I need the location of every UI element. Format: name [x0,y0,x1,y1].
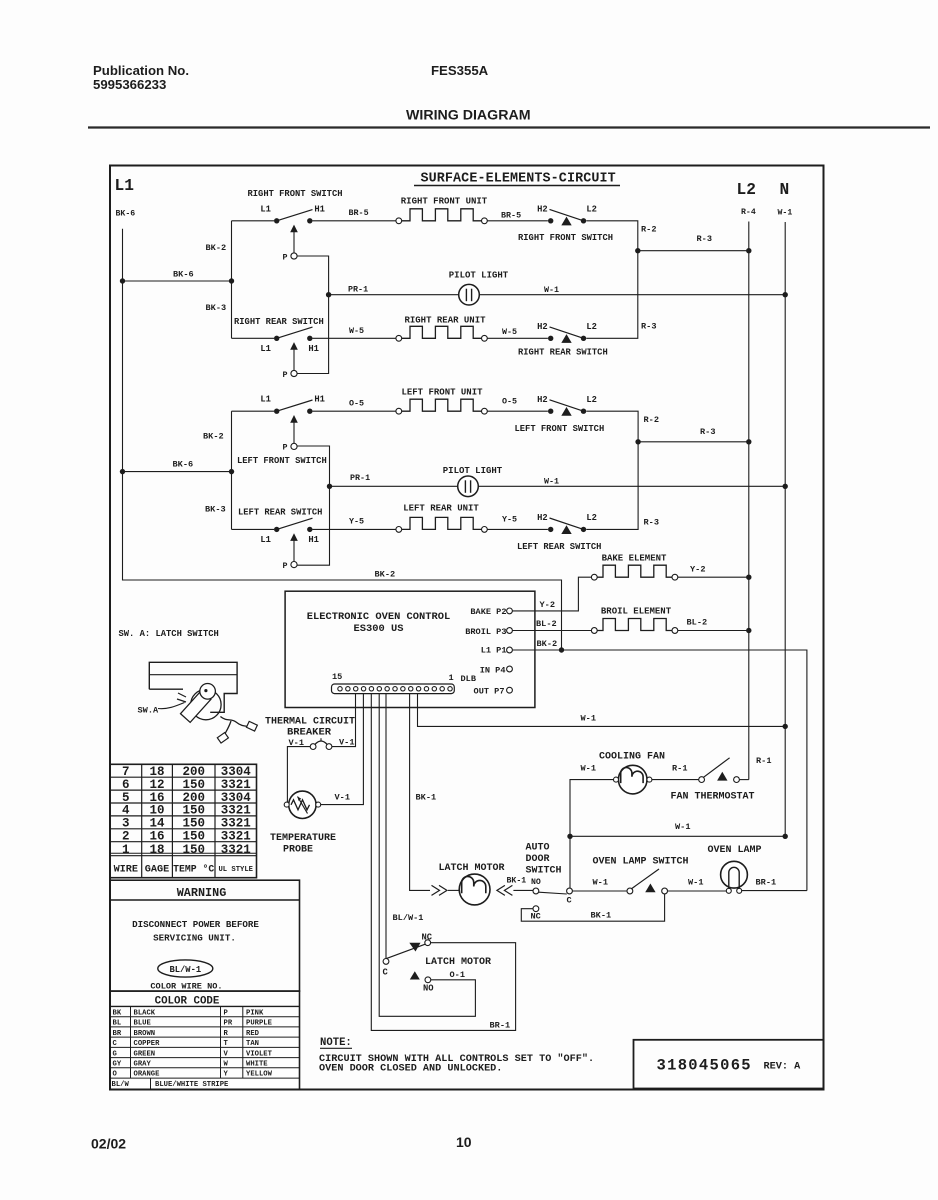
svg-text:BK-2: BK-2 [537,639,558,649]
wire P rise left rear to pilot node [297,484,332,566]
svg-text:14: 14 [149,817,165,831]
part number box 318045065 REV: A [634,1040,824,1089]
svg-text:L1: L1 [260,344,271,354]
svg-text:150: 150 [182,843,205,857]
wire L2 bus vertical [748,222,750,780]
svg-text:V-1: V-1 [339,738,354,748]
svg-text:W-1: W-1 [581,714,596,724]
svg-text:BK-1: BK-1 [591,911,612,921]
svg-text:W-1: W-1 [544,476,559,486]
svg-text:VIOLET: VIOLET [246,1050,273,1058]
lamp PILOT LIGHT (right section) [329,271,788,306]
switch S8 LATCH MOTOR cam switch [383,933,511,1031]
svg-text:200: 200 [182,765,205,779]
svg-text:R-2: R-2 [644,415,659,425]
svg-text:L1: L1 [260,204,271,214]
note text [319,1037,594,1075]
wire H1 to element, label O-5 [313,398,397,411]
svg-text:P: P [282,370,287,380]
svg-text:L2: L2 [586,205,597,215]
svg-text:02/02: 02/02 [91,1136,126,1152]
svg-text:R-1: R-1 [672,763,687,773]
color code table [110,991,300,1090]
svg-text:REV: A: REV: A [764,1062,802,1073]
svg-text:WIRING DIAGRAM: WIRING DIAGRAM [406,108,531,124]
label SW. A: LATCH SWITCH [119,629,219,639]
resistor RIGHT REAR UNIT surface element [396,315,487,341]
svg-text:ORANGE: ORANGE [134,1071,161,1079]
svg-text:DISCONNECT POWER BEFORE: DISCONNECT POWER BEFORE [132,919,259,930]
svg-text:W-1: W-1 [544,285,559,295]
svg-text:FES355A: FES355A [431,63,489,78]
svg-text:LEFT REAR SWITCH: LEFT REAR SWITCH [517,542,601,552]
wire pin12 to temperature probe (V-1) [321,693,363,804]
motor M1 COOLING FAN [581,751,666,793]
svg-text:BK-6: BK-6 [116,210,136,219]
schematic border frame [110,166,824,1090]
svg-text:SWITCH: SWITCH [526,866,562,877]
svg-text:N: N [780,181,790,199]
svg-text:NC: NC [531,911,541,921]
svg-text:PROBE: PROBE [283,845,313,856]
switch S1 RIGHT FRONT SWITCH (left half, L1-H1-P) [247,189,342,262]
wire pin6 BK-1 to latch motor [410,693,437,890]
page footer: page number 10 [456,1134,472,1150]
svg-text:DOOR: DOOR [526,854,550,865]
svg-text:BR-1: BR-1 [756,878,777,888]
svg-text:R-3: R-3 [697,234,712,244]
svg-text:W-5: W-5 [502,327,517,337]
switch S6 AUTO DOOR SWITCH [507,843,665,922]
wire element to H2, label O-5 [487,396,548,411]
svg-text:DLB: DLB [461,674,476,684]
svg-text:BLUE: BLUE [134,1020,152,1028]
wire pin13 to thermal circuit breaker (V-1) [332,693,356,746]
svg-text:R-4: R-4 [741,208,756,217]
wire P rise right rear to pilot node [297,292,331,374]
svg-text:W-1: W-1 [675,822,690,832]
motor M2 LATCH MOTOR [432,863,534,905]
svg-text:P: P [282,443,287,453]
svg-text:6: 6 [122,778,130,792]
svg-text:TEMPERATURE: TEMPERATURE [270,833,336,844]
svg-text:LEFT REAR UNIT: LEFT REAR UNIT [403,504,479,514]
svg-text:C: C [113,1040,118,1048]
svg-text:10: 10 [456,1134,472,1150]
svg-text:H1: H1 [314,395,325,405]
svg-text:L1: L1 [260,535,271,545]
svg-text:3321: 3321 [221,804,251,818]
wire pin5 W-1 to neutral bus [418,693,788,729]
pin number 1 [449,673,454,683]
svg-text:BK-1: BK-1 [507,876,527,885]
wire label BK-6 at L1 bus top [116,210,136,219]
svg-text:NO: NO [423,984,434,994]
svg-text:Publication No.: Publication No. [93,63,189,78]
header rule [88,126,930,128]
svg-text:COPPER: COPPER [134,1040,161,1048]
svg-text:3304: 3304 [221,791,252,805]
pin BAKE P2 [470,607,512,617]
wire P drop right front to pilot node [297,256,328,295]
document header: publication number [93,63,189,92]
svg-text:10: 10 [149,804,164,818]
svg-text:OUT P7: OUT P7 [474,686,505,696]
switch S1 RIGHT FRONT SWITCH (right half, H2-L2) [518,205,613,244]
svg-text:PR-1: PR-1 [350,473,370,483]
svg-text:5995366233: 5995366233 [93,77,166,92]
wire BROIL P3 to broil element (BL-2) [512,619,592,631]
wire L1 P1 BK-2 run to oven lamp riser [512,639,807,891]
svg-text:H1: H1 [308,535,319,545]
svg-text:COLOR CODE: COLOR CODE [155,995,220,1007]
svg-text:RIGHT FRONT SWITCH: RIGHT FRONT SWITCH [247,189,342,199]
svg-text:2: 2 [122,829,130,843]
svg-text:3321: 3321 [221,843,251,857]
svg-text:3321: 3321 [221,817,251,831]
svg-text:18: 18 [149,765,164,779]
resistor LEFT REAR UNIT surface element [396,504,487,533]
svg-text:RED: RED [246,1030,260,1038]
svg-text:R: R [224,1030,229,1038]
wire N bus vertical [784,222,786,836]
svg-text:RIGHT REAR SWITCH: RIGHT REAR SWITCH [518,348,608,358]
svg-text:Y-5: Y-5 [502,515,517,525]
switch S2 RIGHT REAR SWITCH (left half) [234,317,324,380]
node N (neutral terminal) [780,181,790,199]
svg-text:BLUE/WHITE STRIPE: BLUE/WHITE STRIPE [155,1081,229,1089]
svg-text:Y: Y [224,1071,229,1079]
wire L2 to R-3 riser up to R-2 junction [586,251,656,339]
svg-text:RIGHT REAR UNIT: RIGHT REAR UNIT [404,315,486,325]
resistor BROIL ELEMENT [591,607,751,634]
svg-text:LATCH MOTOR: LATCH MOTOR [425,957,491,968]
wire pin11 NC loop of latch motor switch [371,693,515,1030]
svg-text:BK: BK [113,1009,122,1017]
svg-text:OVEN DOOR CLOSED AND UNLOCKED.: OVEN DOOR CLOSED AND UNLOCKED. [319,1064,502,1075]
svg-text:BR-5: BR-5 [349,208,369,218]
svg-text:1: 1 [449,673,454,683]
svg-text:LEFT FRONT UNIT: LEFT FRONT UNIT [401,387,483,397]
svg-text:BL-2: BL-2 [687,618,708,628]
svg-text:BK-1: BK-1 [416,793,437,803]
svg-text:TAN: TAN [246,1040,259,1048]
svg-text:L1: L1 [260,395,271,405]
svg-text:V: V [224,1050,229,1058]
svg-text:3321: 3321 [221,778,251,792]
wire BK-2/BK-3 riser right section [206,221,275,338]
svg-text:BAKE P2: BAKE P2 [470,607,506,617]
wire gauge table [110,764,257,877]
svg-text:3321: 3321 [221,829,251,843]
svg-text:COLOR WIRE NO.: COLOR WIRE NO. [150,982,222,992]
svg-text:3304: 3304 [221,765,252,779]
svg-text:W-1: W-1 [778,209,793,218]
wire BK-6 feed to left section [123,460,232,472]
svg-text:BL-2: BL-2 [536,619,557,629]
svg-text:GREEN: GREEN [134,1050,156,1058]
svg-text:150: 150 [182,778,205,792]
wire L2 to R-2 riser (left section) [586,411,659,442]
svg-text:P: P [224,1009,229,1017]
svg-text:BK-3: BK-3 [205,505,226,515]
svg-text:PR-1: PR-1 [348,285,368,295]
svg-text:16: 16 [149,791,164,805]
pin L1 P1 [481,645,513,655]
thermostat S5 FAN THERMOSTAT [652,756,772,803]
svg-text:NO: NO [531,878,541,887]
svg-text:Y-2: Y-2 [540,600,555,610]
svg-text:BROWN: BROWN [134,1030,156,1038]
svg-text:Y-5: Y-5 [349,517,364,527]
svg-text:W: W [224,1061,229,1069]
wire label R-4 at L2 bus top [741,208,756,217]
svg-text:15: 15 [332,672,342,682]
thermistor RT1 TEMPERATURE PROBE [270,791,336,855]
svg-text:12: 12 [149,778,164,792]
svg-text:BREAKER: BREAKER [287,727,332,739]
svg-text:L2: L2 [586,395,597,405]
wire R-3 to L2 bus with junctions [635,234,751,253]
svg-text:WIRE: WIRE [114,865,138,876]
svg-text:GRAY: GRAY [134,1061,152,1069]
svg-text:W-1: W-1 [688,878,703,888]
wire H1 to element, label BR-5 [313,208,397,221]
svg-text:BL: BL [113,1020,122,1028]
svg-text:LATCH MOTOR: LATCH MOTOR [438,863,504,874]
svg-text:AUTO: AUTO [526,843,550,854]
svg-text:R-1: R-1 [756,756,771,766]
svg-text:BK-3: BK-3 [206,303,227,313]
svg-text:SURFACE-ELEMENTS-CIRCUIT: SURFACE-ELEMENTS-CIRCUIT [421,172,616,187]
svg-text:L2: L2 [586,513,597,523]
connector J1 15-pin strip [332,684,455,694]
wire element to H2, label Y-5 [487,515,548,530]
latch switch SW.A pictorial assembly [138,662,258,743]
svg-text:BR-1: BR-1 [490,1021,511,1031]
wire BK-2/BK-3 riser left section [203,411,274,529]
pin BROIL P3 [465,627,512,637]
switch S4 LEFT REAR SWITCH (right half) [517,513,601,552]
svg-text:PR: PR [224,1020,233,1028]
document header: WIRING DIAGRAM title [406,108,531,124]
svg-text:GAGE: GAGE [145,865,169,876]
svg-text:H1: H1 [308,344,319,354]
svg-text:18: 18 [149,843,164,857]
svg-text:C: C [567,896,572,906]
wire L2 to R-2 riser [586,221,656,251]
svg-text:BK-2: BK-2 [206,243,227,253]
svg-text:PILOT LIGHT: PILOT LIGHT [443,466,503,476]
svg-text:BK-6: BK-6 [173,270,194,280]
svg-text:SW.A: SW.A [138,706,159,716]
svg-text:ELECTRONIC OVEN CONTROL: ELECTRONIC OVEN CONTROL [307,611,450,623]
svg-text:L1 P1: L1 P1 [481,645,507,655]
svg-text:ES300 US: ES300 US [354,623,404,635]
wire L1 bus (BK-6 vertical, turns right as BK-2 bottom feed) [120,229,562,650]
svg-text:O-5: O-5 [349,398,364,408]
svg-text:RIGHT REAR SWITCH: RIGHT REAR SWITCH [234,317,324,327]
switch S4 LEFT REAR SWITCH (left half) [238,508,322,571]
svg-text:3: 3 [122,817,130,831]
wire fan left leg down to W-1 node [570,780,614,837]
svg-text:L2: L2 [586,322,597,332]
controller U1 ELECTRONIC OVEN CONTROL ES300 US box [285,591,535,707]
svg-text:BR: BR [113,1030,122,1038]
svg-text:TEMP °C: TEMP °C [173,864,214,875]
svg-text:R-3: R-3 [641,322,656,332]
svg-text:W-1: W-1 [581,763,596,773]
svg-text:BROIL ELEMENT: BROIL ELEMENT [601,607,672,617]
label DLB [461,674,476,684]
svg-text:H2: H2 [537,205,548,215]
svg-text:150: 150 [182,829,205,843]
svg-text:200: 200 [182,791,205,805]
svg-text:1: 1 [122,843,130,857]
svg-text:LEFT FRONT SWITCH: LEFT FRONT SWITCH [237,456,327,466]
svg-text:150: 150 [182,817,205,831]
svg-text:V-1: V-1 [335,793,350,803]
svg-text:OVEN LAMP: OVEN LAMP [707,845,761,856]
lamp PILOT LIGHT (left section) [330,466,788,497]
wire W-1 node row (fan/auto door switch common) [567,822,788,839]
svg-text:COOLING FAN: COOLING FAN [599,751,665,762]
wire BK-6 feed to right section [123,270,232,282]
svg-text:BROIL P3: BROIL P3 [465,627,506,637]
svg-text:5: 5 [122,791,130,805]
svg-text:H2: H2 [537,513,548,523]
resistor BAKE ELEMENT [591,553,751,580]
svg-text:PINK: PINK [246,1009,264,1017]
svg-text:P: P [282,252,287,262]
svg-text:BAKE ELEMENT: BAKE ELEMENT [602,553,667,563]
svg-text:Y-2: Y-2 [690,565,705,575]
svg-text:LEFT FRONT SWITCH: LEFT FRONT SWITCH [515,424,605,434]
svg-text:C: C [383,968,389,978]
svg-text:BLACK: BLACK [134,1009,156,1017]
svg-text:R-3: R-3 [644,518,659,528]
wire label BK-2 on bottom feed [375,570,396,580]
wire breaker to probe (left leg) [284,747,310,805]
svg-text:P: P [282,561,287,571]
resistor LEFT FRONT UNIT surface element [396,387,487,414]
svg-text:RIGHT FRONT UNIT: RIGHT FRONT UNIT [401,196,488,206]
svg-text:O: O [113,1071,118,1079]
svg-text:O-5: O-5 [502,396,517,406]
svg-text:150: 150 [182,804,205,818]
wire pin9 to latch switch common (BL/W-1) [386,693,423,958]
svg-text:16: 16 [149,829,164,843]
wire pin10 NO loop of latch motor switch (O-1) [379,693,475,1016]
svg-text:BR-5: BR-5 [501,210,521,220]
switch S3 LEFT FRONT SWITCH (left half) [237,395,327,466]
svg-text:YELLOW: YELLOW [246,1071,273,1079]
svg-text:H2: H2 [537,395,548,405]
svg-text:IN P4: IN P4 [480,665,506,675]
pin IN P4 [480,665,513,675]
svg-text:BL/W: BL/W [112,1081,130,1089]
svg-text:W-5: W-5 [349,326,364,336]
schematic title SURFACE-ELEMENTS-CIRCUIT [414,172,620,187]
svg-text:UL STYLE: UL STYLE [218,866,253,874]
svg-text:BL/W-1: BL/W-1 [393,913,424,923]
wire C riser to W-1 node [569,836,571,888]
svg-text:LEFT REAR SWITCH: LEFT REAR SWITCH [238,508,322,518]
wire L2 to R-3 riser (left section) [586,442,659,530]
resistor RIGHT FRONT UNIT surface element [396,196,488,223]
wire P drop left front to pilot node [297,446,329,486]
switch S7 OVEN LAMP SWITCH [572,857,726,894]
wire BAKE P2 to bake element (Y-2) [512,577,592,611]
svg-text:G: G [113,1050,117,1058]
svg-text:WHITE: WHITE [246,1061,268,1069]
svg-text:4: 4 [122,804,130,818]
svg-text:L1: L1 [115,177,135,195]
svg-text:WARNING: WARNING [177,886,227,900]
svg-text:BK-6: BK-6 [173,460,194,470]
wire label W-1 at N bus top [778,209,793,218]
svg-text:PILOT LIGHT: PILOT LIGHT [449,271,509,281]
switch S3 LEFT FRONT SWITCH (right half) [515,395,605,434]
svg-text:FAN THERMOSTAT: FAN THERMOSTAT [670,792,754,803]
svg-text:318045065: 318045065 [657,1057,752,1075]
svg-text:PURPLE: PURPLE [246,1020,273,1028]
node L1 (line 1 terminal) [115,177,135,195]
pin OUT P7 [474,686,513,696]
wire H1 to element, label Y-5 [313,517,397,530]
svg-text:RIGHT FRONT SWITCH: RIGHT FRONT SWITCH [518,233,613,243]
breaker CB1 THERMAL CIRCUIT BREAKER [265,717,355,750]
svg-text:R-3: R-3 [700,427,715,437]
svg-text:SERVICING UNIT.: SERVICING UNIT. [153,933,236,944]
wire element to H2, label W-5 [487,327,548,338]
svg-text:NOTE:: NOTE: [320,1037,352,1049]
svg-text:BL/W-1: BL/W-1 [169,965,201,975]
svg-text:W-1: W-1 [593,878,608,888]
svg-text:7: 7 [122,765,130,779]
wire H1 to element, label W-5 [313,326,397,338]
svg-text:R-2: R-2 [641,225,656,235]
svg-text:L2: L2 [737,181,756,199]
svg-text:T: T [224,1040,229,1048]
node L2 (line 2 terminal) [737,181,756,199]
svg-text:BK-2: BK-2 [375,570,396,580]
page footer: date 02/02 [91,1136,126,1152]
wire R-3 to L2 bus (left section) [635,427,751,444]
svg-text:O-1: O-1 [450,970,465,980]
wire element to H2, label BR-5 [487,210,548,221]
svg-text:H1: H1 [314,204,325,214]
document header: model number FES355A [431,63,489,78]
svg-text:OVEN LAMP SWITCH: OVEN LAMP SWITCH [593,857,689,868]
lamp DS1 OVEN LAMP [707,845,806,894]
warning box [110,880,300,991]
svg-text:GY: GY [113,1061,122,1069]
svg-text:H2: H2 [537,322,548,332]
switch S2 RIGHT REAR SWITCH (right half) [518,322,608,358]
svg-text:BK-2: BK-2 [203,432,224,442]
pin number 15 [332,672,342,682]
svg-text:SW. A: LATCH SWITCH: SW. A: LATCH SWITCH [119,629,219,639]
